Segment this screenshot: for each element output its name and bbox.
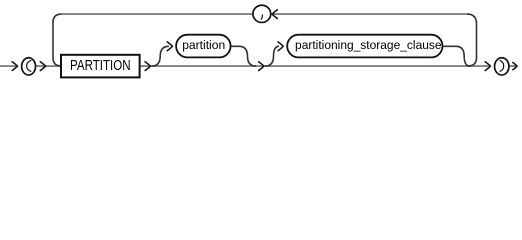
svg-text:partition: partition xyxy=(182,38,225,52)
svg-text:partitioning_storage_clause: partitioning_storage_clause xyxy=(295,38,442,52)
svg-text:PARTITION: PARTITION xyxy=(70,57,131,74)
